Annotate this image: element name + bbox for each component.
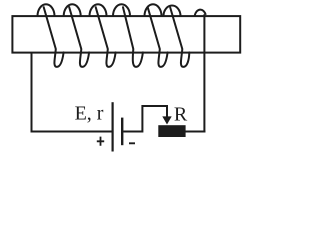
wire right lead down from coil end loop [195, 10, 206, 16]
coil turn 3 [90, 4, 116, 67]
coil turn 4 [113, 4, 143, 67]
coil turn 5 [145, 4, 168, 67]
plus sign [97, 137, 104, 146]
battery long plate (+) [111, 102, 113, 151]
iron core bar [12, 16, 240, 53]
svg-text:E, r: E, r [75, 103, 104, 125]
wire battery to step and arrow shaft [123, 106, 167, 132]
coil turn 1 [38, 4, 64, 67]
coil turn 2 [64, 4, 89, 67]
svg-text:R: R [174, 104, 188, 126]
minus sign [129, 142, 135, 144]
arrowhead into resistor [162, 116, 171, 124]
resistor R (black box) [158, 125, 185, 137]
coil turn 6 [164, 6, 190, 67]
wire right lead vertical [203, 14, 205, 132]
battery short plate (-) [121, 118, 123, 146]
coil L1 [38, 4, 190, 67]
wire resistor to right lead [185, 131, 205, 133]
wire left lead down from coil to battery [32, 53, 112, 132]
